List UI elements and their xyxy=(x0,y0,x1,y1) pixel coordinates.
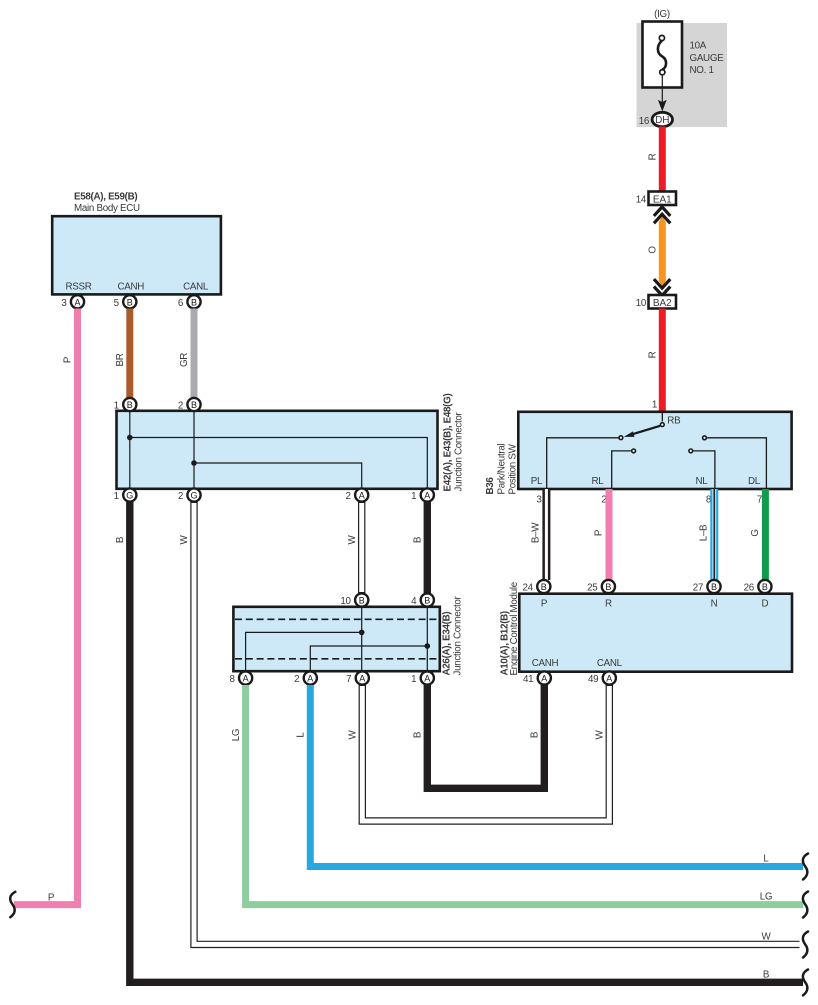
svg-text:B: B xyxy=(359,596,365,606)
pin 6 circle B xyxy=(187,295,200,308)
svg-text:DH: DH xyxy=(655,115,669,126)
svg-text:A: A xyxy=(424,491,430,501)
wire BR (CANH to junction) xyxy=(126,309,133,399)
fuse block shaded area xyxy=(637,23,728,127)
svg-text:B: B xyxy=(762,582,768,592)
pin 4 circle B top xyxy=(421,593,434,606)
svg-text:B: B xyxy=(127,400,133,410)
junction dot xyxy=(359,630,365,636)
svg-text:1: 1 xyxy=(411,674,416,685)
connector EA1 pin 14 xyxy=(649,192,677,206)
pin 2 circle A bottom xyxy=(355,488,368,501)
offpage squiggle B xyxy=(803,970,808,996)
junction connector A26/E34 box xyxy=(233,607,439,671)
wire GR (CANL to junction) xyxy=(191,309,198,399)
svg-text:B: B xyxy=(115,536,126,543)
svg-text:B: B xyxy=(541,582,547,592)
svg-text:P: P xyxy=(63,356,74,363)
ECM box A10/B12 xyxy=(519,594,792,672)
svg-text:RB: RB xyxy=(667,416,681,427)
svg-text:A: A xyxy=(307,674,313,684)
svg-text:L: L xyxy=(763,854,769,865)
pin 5 circle B xyxy=(123,295,136,308)
wire W (7A to ECM 49A, white U) xyxy=(362,685,609,821)
svg-text:25: 25 xyxy=(587,583,598,594)
arrowhead into DH xyxy=(658,100,667,112)
svg-text:R: R xyxy=(648,351,659,358)
offpage squiggle pink xyxy=(10,892,15,917)
svg-text:2: 2 xyxy=(294,674,299,685)
svg-text:A: A xyxy=(243,674,249,684)
pin 10 circle B top xyxy=(355,593,368,606)
offpage squiggle L xyxy=(803,854,808,880)
svg-text:Park/Neutral: Park/Neutral xyxy=(497,444,508,495)
pin 49 circle A xyxy=(603,671,616,684)
internal wire to 2A xyxy=(194,463,362,488)
internal wire to 2A xyxy=(310,646,427,671)
wire B (1G to offpage, black) xyxy=(130,502,803,982)
wire R (DH to EA1) xyxy=(659,127,666,192)
svg-text:E58(A), E59(B): E58(A), E59(B) xyxy=(74,192,137,203)
contact circle RL xyxy=(632,449,636,453)
svg-text:26: 26 xyxy=(744,583,755,594)
svg-text:10: 10 xyxy=(340,596,351,607)
wire W (E42 2A to A26 10B) xyxy=(358,502,365,593)
svg-text:W: W xyxy=(347,534,358,544)
internal wire to 1A xyxy=(130,438,428,489)
svg-text:L–B: L–B xyxy=(699,524,710,541)
svg-text:P: P xyxy=(594,529,605,536)
pin 7 circle A bottom xyxy=(356,671,369,684)
Main Body ECU box E58/E59 xyxy=(52,216,221,294)
wire G (DL to ECM 26B) xyxy=(762,489,769,580)
pin 2 circle B top xyxy=(187,398,200,411)
contact circle NL xyxy=(689,449,693,453)
svg-text:CANH: CANH xyxy=(532,658,559,669)
svg-text:CANL: CANL xyxy=(183,282,209,293)
connector oval DH pin 16 xyxy=(652,112,672,126)
svg-text:W: W xyxy=(762,932,772,943)
svg-text:B: B xyxy=(763,970,770,981)
svg-text:GAUGE: GAUGE xyxy=(690,53,725,64)
svg-text:B: B xyxy=(127,297,133,307)
svg-text:7: 7 xyxy=(757,495,762,506)
B36 Park/Neutral Position SW box xyxy=(518,412,791,489)
svg-text:(IG): (IG) xyxy=(654,9,670,20)
svg-text:Main Body ECU: Main Body ECU xyxy=(74,203,140,214)
svg-text:10: 10 xyxy=(636,298,647,309)
svg-text:B: B xyxy=(605,582,611,592)
wire P (RSSR to offpage, pink) xyxy=(14,309,78,905)
svg-text:G: G xyxy=(750,529,761,536)
svg-text:P: P xyxy=(48,893,55,904)
wire P (RL to ECM 25B) xyxy=(606,489,613,580)
svg-text:LG: LG xyxy=(760,892,772,903)
svg-text:A: A xyxy=(359,491,365,501)
svg-text:2: 2 xyxy=(346,491,351,502)
pin 1 circle A bottom xyxy=(421,671,434,684)
internal wire 4B-1A xyxy=(426,608,428,671)
contact line NL xyxy=(694,451,715,488)
svg-text:RL: RL xyxy=(592,476,605,487)
contact line PL xyxy=(547,438,619,488)
svg-text:14: 14 xyxy=(636,195,647,206)
svg-text:DL: DL xyxy=(748,476,761,487)
svg-text:Engine Control Module: Engine Control Module xyxy=(509,581,520,675)
svg-text:1: 1 xyxy=(652,400,657,411)
wire L (2A to offpage, blue) xyxy=(310,685,803,867)
offpage squiggle W xyxy=(803,932,808,958)
connector BA2 pin 10 xyxy=(649,295,677,309)
svg-text:BR: BR xyxy=(115,353,126,366)
contact line RL xyxy=(612,451,631,488)
svg-text:P: P xyxy=(541,599,548,610)
wire O (EA1 to BA2) xyxy=(659,216,666,223)
svg-text:W: W xyxy=(179,534,190,544)
svg-text:Junction Connector: Junction Connector xyxy=(454,411,465,491)
junction connector E42/E43/E48 box xyxy=(117,411,438,489)
svg-text:L: L xyxy=(296,732,307,738)
junction dot xyxy=(127,435,133,441)
contact line DL xyxy=(707,438,766,488)
svg-text:6: 6 xyxy=(178,298,184,309)
svg-text:4: 4 xyxy=(411,596,417,607)
offpage squiggle LG xyxy=(803,892,808,918)
svg-text:RSSR: RSSR xyxy=(65,282,91,293)
chevron pair up xyxy=(654,207,670,223)
svg-text:R: R xyxy=(605,599,612,610)
svg-text:3: 3 xyxy=(61,298,67,309)
pin 27 circle B xyxy=(707,580,720,593)
svg-text:5: 5 xyxy=(114,298,120,309)
internal wire 2B-2G xyxy=(193,412,195,488)
switch wiper arm with arrowhead xyxy=(632,426,661,435)
svg-text:1: 1 xyxy=(114,491,119,502)
wire R (BA2 to B36) xyxy=(659,309,666,412)
svg-text:B: B xyxy=(413,536,424,543)
svg-text:B: B xyxy=(711,582,717,592)
svg-text:G: G xyxy=(126,491,133,501)
svg-text:B: B xyxy=(191,297,197,307)
internal wire 10B-7A xyxy=(361,608,363,671)
wire W (2G to offpage, white) xyxy=(194,502,800,944)
svg-text:1: 1 xyxy=(411,491,416,502)
svg-text:Junction Connector: Junction Connector xyxy=(453,595,464,675)
wire L-B (NL to ECM 27B) xyxy=(710,489,718,580)
svg-text:A: A xyxy=(606,674,612,684)
wire LG (8A to offpage) xyxy=(246,685,803,905)
svg-text:EA1: EA1 xyxy=(653,195,672,206)
wire B-W (PL to ECM 24B) xyxy=(542,489,550,580)
svg-text:LG: LG xyxy=(231,729,242,741)
pin 1 circle B top xyxy=(123,398,136,411)
node RB circle xyxy=(660,423,664,427)
fuse F1 box xyxy=(643,22,683,88)
svg-text:A26(A), E34(B): A26(A), E34(B) xyxy=(442,612,453,676)
svg-text:CANL: CANL xyxy=(597,658,623,669)
svg-text:B: B xyxy=(530,731,541,738)
svg-text:1: 1 xyxy=(114,401,119,412)
svg-text:2: 2 xyxy=(178,491,183,502)
svg-text:GR: GR xyxy=(179,353,190,367)
svg-text:27: 27 xyxy=(693,583,703,594)
svg-text:A: A xyxy=(541,674,547,684)
svg-text:B: B xyxy=(191,400,197,410)
svg-text:D: D xyxy=(762,599,769,610)
pin 25 circle B xyxy=(602,580,615,593)
junction dot xyxy=(425,643,431,649)
svg-text:Position SW: Position SW xyxy=(508,443,519,494)
svg-text:NL: NL xyxy=(696,476,709,487)
svg-text:B: B xyxy=(413,731,424,738)
pin 3 circle A xyxy=(71,295,84,308)
contact circle PL xyxy=(619,436,623,440)
pin 2 circle A bottom xyxy=(304,671,317,684)
svg-text:41: 41 xyxy=(523,674,533,685)
svg-text:16: 16 xyxy=(639,116,650,127)
svg-text:O: O xyxy=(648,246,659,254)
dashed bus line top xyxy=(235,618,439,620)
pin 1 circle A bottom xyxy=(421,488,434,501)
svg-text:A: A xyxy=(359,674,365,684)
wire B (E42 1A to A26 4B) xyxy=(424,502,431,593)
junction dot xyxy=(191,460,197,466)
svg-text:G: G xyxy=(190,491,197,501)
wire B (1A to ECM 41A, black U) xyxy=(427,685,544,788)
pin 24 circle B xyxy=(537,580,550,593)
chevron pair down xyxy=(654,279,670,295)
svg-text:10A: 10A xyxy=(690,41,707,52)
svg-text:2: 2 xyxy=(178,401,183,412)
pin 2 circle G bottom xyxy=(187,488,200,501)
pin 1 circle G bottom xyxy=(123,488,136,501)
dashed bus line bottom xyxy=(235,658,439,660)
internal wire 1B-1G xyxy=(129,412,131,488)
svg-text:W: W xyxy=(348,729,359,739)
svg-text:E42(A), E43(B), E48(G): E42(A), E43(B), E48(G) xyxy=(443,394,454,492)
svg-text:W: W xyxy=(595,729,606,739)
svg-text:NO. 1: NO. 1 xyxy=(690,65,714,76)
pin 8 circle A bottom xyxy=(239,671,252,684)
svg-text:A: A xyxy=(424,674,430,684)
svg-text:B36: B36 xyxy=(485,477,496,495)
svg-text:N: N xyxy=(711,599,718,610)
svg-text:7: 7 xyxy=(346,674,351,685)
internal wire to 8A xyxy=(246,632,362,670)
svg-text:B: B xyxy=(424,596,430,606)
svg-text:B–W: B–W xyxy=(531,522,542,543)
svg-text:PL: PL xyxy=(531,476,543,487)
svg-text:A: A xyxy=(74,297,80,307)
svg-text:BA2: BA2 xyxy=(653,298,672,309)
svg-text:24: 24 xyxy=(522,583,533,594)
svg-text:CANH: CANH xyxy=(118,282,145,293)
pin 41 circle A xyxy=(538,671,551,684)
contact circle DL xyxy=(703,436,707,440)
svg-text:49: 49 xyxy=(588,674,598,685)
svg-text:8: 8 xyxy=(229,674,235,685)
svg-text:R: R xyxy=(648,153,659,160)
pin 26 circle B xyxy=(758,580,771,593)
node RB entry line xyxy=(661,412,663,421)
svg-text:3: 3 xyxy=(536,495,542,506)
fuse 10A GAUGE NO.1 symbol xyxy=(658,35,666,103)
